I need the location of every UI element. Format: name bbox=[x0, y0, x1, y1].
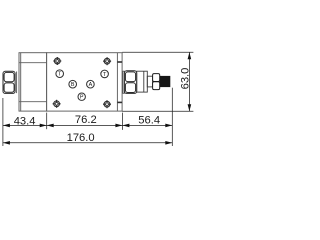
svg-text:A: A bbox=[89, 82, 93, 88]
row1 arrows bbox=[3, 124, 10, 128]
port A bbox=[87, 80, 95, 88]
threaded stem (dark) bbox=[160, 76, 171, 87]
bolt hole top-right bbox=[103, 57, 111, 65]
svg-text:76.2: 76.2 bbox=[75, 114, 97, 126]
cartridge cylinder bbox=[137, 71, 148, 92]
left extension line bbox=[2, 98, 4, 146]
dim line 76.2 bbox=[47, 124, 123, 126]
svg-text:176.0: 176.0 bbox=[67, 132, 95, 144]
bolt hole bottom-left bbox=[53, 100, 61, 108]
bolt hole bottom-right bbox=[103, 100, 111, 108]
cartridge neck bbox=[147, 76, 152, 87]
right internal plate line bbox=[116, 53, 118, 111]
hex nut right cartridge bbox=[124, 71, 136, 94]
small hex on stem bbox=[153, 74, 160, 90]
port T right bbox=[101, 70, 109, 78]
washer right bbox=[123, 71, 125, 93]
dim line 56.4 bbox=[122, 124, 172, 126]
right extension line bbox=[171, 88, 173, 146]
row2 arrows bbox=[3, 141, 10, 145]
bottom extension line bbox=[122, 110, 193, 112]
63.0 arrows bbox=[188, 52, 192, 59]
arrowheads bbox=[3, 52, 191, 144]
svg-text:P: P bbox=[80, 95, 84, 101]
washer left bbox=[16, 72, 18, 94]
valve main body block bbox=[47, 53, 123, 111]
port P bbox=[78, 93, 85, 101]
port T left bbox=[56, 70, 64, 78]
ext line body left bbox=[46, 113, 48, 130]
port B bbox=[69, 80, 77, 88]
top extension line bbox=[122, 51, 193, 53]
svg-text:63.0: 63.0 bbox=[180, 68, 192, 90]
svg-text:43.4: 43.4 bbox=[14, 115, 36, 127]
63.0 dim line bbox=[188, 52, 190, 111]
svg-text:56.4: 56.4 bbox=[138, 115, 160, 127]
ext line body right bbox=[121, 113, 123, 130]
bolt hole top-left bbox=[53, 57, 61, 65]
dim line 43.4 bbox=[3, 124, 47, 126]
dim line 176.0 bbox=[3, 142, 172, 144]
dimension texts bbox=[14, 68, 192, 144]
dimension graphics bbox=[3, 52, 194, 146]
left end block bbox=[19, 53, 47, 111]
svg-text:B: B bbox=[71, 82, 75, 88]
bolt bar marks right edge bbox=[117, 62, 122, 102]
hex plug left bbox=[3, 71, 15, 93]
